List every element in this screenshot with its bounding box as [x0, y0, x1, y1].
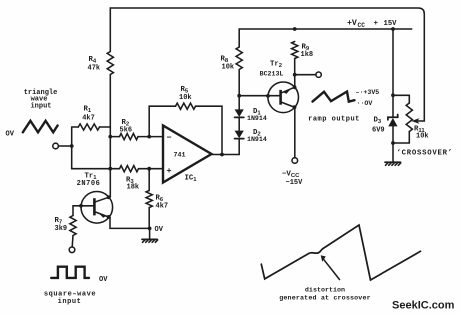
wire R9 bottom node to ramp output terminal: [293, 59, 316, 88]
svg-text:1k8: 1k8: [301, 51, 314, 59]
resistor R9: [292, 42, 314, 60]
triangle wave input label: [24, 89, 58, 110]
svg-text:BC213L: BC213L: [260, 70, 284, 77]
resistor R11: [406, 103, 428, 140]
ground under R6 0V node: [142, 226, 164, 242]
transistor Tr1 2N706 (NPN): [77, 172, 113, 223]
wire top rail from R4 top to R11 wiper (frame): [110, 8, 424, 121]
svg-text:–·+3V5: –·+3V5: [356, 89, 380, 96]
svg-text:10k: 10k: [416, 132, 429, 140]
arrow to distortion point: [321, 255, 340, 279]
svg-text:18k: 18k: [127, 184, 140, 192]
wire right bus C: rail to ground through D3: [391, 29, 395, 162]
node/vertical bus B: R4 bottom to Tr1 collector: [109, 75, 111, 197]
wire R7 to Tr1 base: [73, 204, 94, 216]
svg-text:−15V: −15V: [286, 179, 304, 187]
wire non-inverting input line: [72, 167, 163, 171]
square-wave input label: [44, 291, 96, 306]
svg-text:OV: OV: [6, 130, 15, 138]
zener diode D3 6V9: [372, 115, 398, 135]
svg-text:SeekIC.com: SeekIC.com: [392, 300, 455, 312]
distortion annotation: [279, 287, 371, 303]
wire op-amp output: [212, 139, 240, 157]
ramp output waveform: [308, 89, 379, 123]
svg-text:‘CROSSOVER’: ‘CROSSOVER’: [397, 149, 453, 157]
wire input branch A vertical: [71, 127, 73, 169]
node square-wave input terminal: [69, 247, 75, 253]
svg-text:+: +: [374, 20, 379, 28]
svg-text:1N914: 1N914: [247, 136, 267, 143]
resistor R8: [221, 47, 243, 72]
svg-text:15V: 15V: [384, 20, 398, 28]
wire feedback loop R5: [149, 106, 222, 154]
resistor R1: [78, 106, 99, 131]
svg-text:ramp output: ramp output: [308, 116, 360, 124]
svg-text:2N706: 2N706: [77, 180, 101, 188]
node +Vcc +15V label: [347, 19, 397, 29]
node ramp output terminal: [316, 72, 321, 77]
sawtooth waveform with crossover distortion: [261, 225, 420, 280]
resistor R4: [88, 52, 114, 75]
diode D2 1N914: [235, 129, 267, 143]
svg-text:−: −: [167, 133, 172, 143]
ground under D3 node: [385, 162, 401, 165]
node 'CROSSOVER' label: [397, 149, 453, 157]
wire Tr2 collector to -Vcc terminal: [294, 107, 296, 157]
wire diode chain middle: [238, 117, 240, 130]
svg-text:47k: 47k: [88, 64, 101, 72]
wire input terminal to node A: [58, 144, 73, 148]
resistor R3: [120, 166, 140, 192]
svg-text:4k7: 4k7: [82, 115, 95, 123]
wire diode top to R8 bottom / Tr2 base: [237, 70, 280, 110]
svg-text:generated at crossover: generated at crossover: [279, 295, 371, 303]
transistor Tr2 BC213L (PNP): [260, 60, 299, 112]
svg-text:input: input: [30, 102, 51, 110]
wire R11 top lead: [393, 95, 409, 103]
svg-text:CC: CC: [358, 22, 366, 29]
svg-text:+: +: [167, 166, 172, 176]
resistor R2: [120, 119, 139, 140]
resistor R6: [146, 191, 168, 211]
svg-text:5k6: 5k6: [120, 126, 133, 134]
svg-text:+V: +V: [347, 19, 357, 28]
node triangle input terminal: [53, 143, 59, 149]
svg-text:10k: 10k: [222, 64, 235, 72]
svg-text:OV: OV: [99, 276, 108, 284]
svg-text:3k9: 3k9: [55, 225, 68, 233]
wire R1 right lead: [100, 126, 111, 128]
wire R6 from + input down: [148, 169, 150, 229]
svg-text:741: 741: [173, 151, 185, 159]
diode D1 1N914: [235, 108, 267, 122]
wire inverting input line: [108, 135, 163, 139]
svg-text:4k7: 4k7: [156, 203, 169, 211]
wire R11 bottom lead: [393, 132, 409, 144]
svg-text:distortion: distortion: [305, 287, 345, 295]
triangle wave symbol: [6, 121, 58, 139]
resistor R7: [55, 216, 77, 236]
wire R7 bottom to square-wave terminal: [71, 236, 74, 247]
wire R11 wiper arrowhead: [412, 119, 419, 124]
svg-text:OV: OV: [155, 226, 164, 234]
op-amp U1 741 IC1: [163, 126, 212, 183]
node -Vcc terminal: [282, 158, 303, 187]
svg-text:input: input: [58, 298, 82, 306]
wire R8 top to +Vcc rail: [239, 27, 412, 47]
svg-text:6V9: 6V9: [372, 126, 385, 134]
resistor R5: [176, 86, 196, 109]
SeekIC.com watermark: [392, 300, 455, 312]
wire R1 left lead: [72, 126, 79, 128]
svg-text:1N914: 1N914: [247, 115, 267, 122]
wire 0V line from Tr1 emitter: [110, 218, 152, 231]
square wave symbol: [51, 267, 108, 284]
svg-text:10k: 10k: [179, 94, 192, 102]
svg-text:··OV: ··OV: [357, 100, 373, 107]
